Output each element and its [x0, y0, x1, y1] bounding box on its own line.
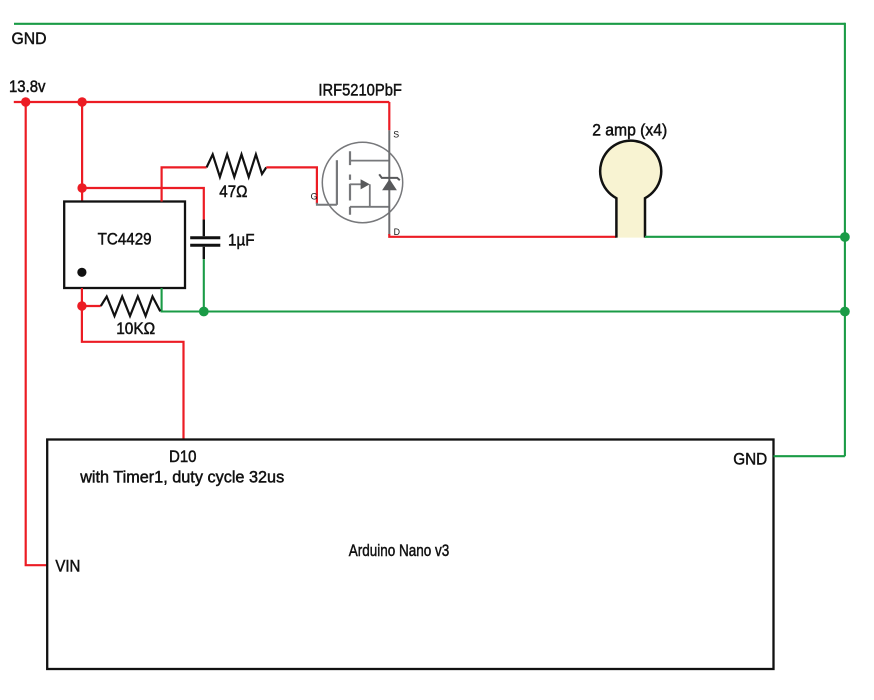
wire D10 to Arduino (red)	[82, 306, 184, 440]
svg-text:Arduino Nano v3: Arduino Nano v3	[349, 541, 450, 560]
svg-text:with Timer1, duty cycle 32us: with Timer1, duty cycle 32us	[79, 468, 284, 487]
wire 13.8v to Arduino VIN (red)	[26, 102, 48, 565]
resistor R2 10Kohm	[101, 297, 161, 317]
svg-text:10KΩ: 10KΩ	[116, 319, 155, 338]
svg-text:G: G	[311, 192, 318, 202]
wire 47R to gate (red)	[266, 167, 317, 203]
pin 1 marker (dot)	[77, 268, 86, 277]
node GND-bulb junction	[840, 232, 850, 242]
svg-text:D10: D10	[169, 447, 197, 466]
arrow branch	[350, 183, 361, 185]
Arduino Nano v3 board	[47, 440, 773, 670]
vertical S-D line	[388, 130, 390, 235]
source branch	[350, 160, 389, 162]
wire Arduino GND to rail (green)	[774, 455, 845, 457]
wire source from 13.8v rail (red)	[388, 102, 390, 130]
channel dashed bar	[349, 151, 351, 215]
svg-text:2 amp (x4): 2 amp (x4)	[592, 121, 667, 140]
gate lead hook	[317, 203, 337, 205]
svg-text:D: D	[394, 227, 400, 237]
svg-text:13.8v: 13.8v	[9, 77, 46, 96]
body diode	[382, 179, 397, 190]
wire capacitor to ground rail (green)	[203, 259, 205, 311]
op-amp U1 TC4429 body	[64, 202, 185, 289]
wire GND right rail (green)	[844, 23, 846, 456]
svg-text:IRF5210PbF: IRF5210PbF	[318, 81, 402, 100]
wire GND top rail (green)	[14, 23, 845, 25]
svg-text:S: S	[393, 129, 399, 139]
svg-text:VIN: VIN	[55, 557, 80, 576]
svg-text:1µF: 1µF	[228, 230, 255, 249]
wire TC4429 GND to ground rail (green)	[162, 288, 845, 312]
wire TC4429 pin to 10K (red stub)	[82, 305, 101, 307]
node GND-TC4429 junction	[840, 307, 850, 317]
node TC4429 input junction	[77, 301, 86, 310]
resistor R1 47ohm	[207, 154, 267, 177]
capacitor C1 1uF	[190, 220, 220, 260]
transistor Q1 IRF5210PbF (P-MOSFET)	[311, 129, 403, 237]
wire VDD to capacitor (red)	[82, 188, 204, 220]
node TC4429 VDD junction	[77, 183, 86, 192]
wire bulb to GND rail (green)	[645, 236, 845, 238]
svg-text:47Ω: 47Ω	[219, 182, 247, 201]
svg-text:TC4429: TC4429	[98, 230, 152, 249]
wire 13.8v to TC4429 VDD (red)	[81, 102, 83, 202]
wire TC4429 output to 47R (red)	[162, 167, 207, 201]
body circle	[322, 142, 402, 222]
gate bar	[336, 160, 338, 205]
node 13.8v-TC4429 junction	[77, 97, 86, 106]
node 13.8v-VIN junction	[21, 97, 30, 106]
wire 13.8v rail (red)	[14, 101, 390, 103]
svg-text:GND: GND	[733, 449, 767, 468]
wire drain to bulb (red)	[389, 234, 616, 237]
wire TC4429 pin vertical (red)	[81, 288, 83, 306]
drain branch	[350, 206, 389, 208]
svg-text:GND: GND	[12, 29, 47, 48]
node capacitor-ground junction	[199, 307, 209, 317]
lamp LP1 (bulb)	[600, 141, 661, 238]
